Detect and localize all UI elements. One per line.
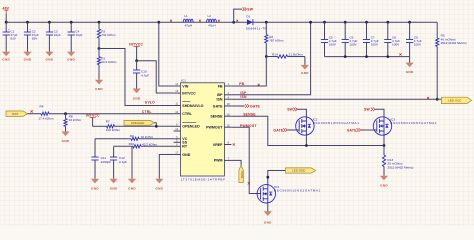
transistor IC3 — [373, 117, 391, 135]
port GATE pin — [231, 105, 244, 107]
svg-text:ISN: ISN — [217, 97, 223, 101]
svg-text:D1: D1 — [246, 15, 250, 19]
svg-text:GND: GND — [67, 57, 75, 61]
svg-text:L2: L2 — [208, 14, 212, 18]
pin 16 SENSE — [224, 115, 231, 117]
svg-text:GND: GND — [182, 153, 190, 157]
ground R8 — [61, 131, 69, 136]
capacitor C12 — [113, 147, 115, 157]
port SW top — [243, 7, 247, 11]
ground R1 — [95, 80, 103, 85]
svg-text:UVLO: UVLO — [145, 101, 155, 105]
ground C10 — [133, 89, 141, 94]
node FB — [265, 55, 268, 58]
wire UVLO to pin — [99, 49, 174, 106]
svg-text:SHDN/UVLO: SHDN/UVLO — [182, 104, 203, 108]
capacitor C4 — [70, 21, 73, 24]
wire IC3 source — [383, 136, 385, 145]
svg-text:16: 16 — [227, 112, 230, 116]
svg-text:GND: GND — [91, 187, 99, 191]
ground R14 — [304, 57, 306, 65]
svg-text:GND: GND — [155, 187, 163, 191]
svg-text:10: 10 — [175, 110, 178, 114]
ground C4 — [67, 52, 75, 57]
wire INTVCC to pin — [137, 61, 174, 93]
diode D1 — [247, 19, 253, 25]
ground IC4 — [264, 211, 272, 216]
svg-text:RT: RT — [182, 145, 188, 149]
svg-text:18: 18 — [227, 102, 230, 106]
svg-text:GATE: GATE — [213, 104, 223, 108]
svg-text:FB: FB — [218, 84, 223, 88]
svg-text:10µF: 10µF — [54, 33, 61, 37]
overline SHDN — [182, 101, 190, 103]
svg-text:PWM: PWM — [214, 159, 223, 163]
node CTRL divider — [64, 112, 67, 115]
inductor L1 — [183, 19, 193, 22]
overline OPENLED — [182, 121, 196, 123]
wire OPENLED port stub — [155, 123, 157, 127]
wire SW to port — [234, 9, 243, 22]
wire cap ground bus — [325, 56, 410, 58]
pin 2 ISP — [224, 94, 231, 96]
svg-text:2512 (6432 Metric): 2512 (6432 Metric) — [441, 41, 467, 45]
svg-text:787 kOhm: 787 kOhm — [269, 39, 284, 43]
svg-text:GND: GND — [2, 57, 10, 61]
pin 10 CTRL — [174, 113, 181, 115]
svg-text:GND: GND — [264, 220, 272, 224]
resistor R2 — [265, 21, 268, 24]
wire output rail — [253, 21, 437, 23]
svg-text:21.5kOhm: 21.5kOhm — [289, 52, 304, 56]
svg-text:OPENLED: OPENLED — [182, 125, 200, 129]
svg-text:SENSE: SENSE — [243, 112, 256, 116]
svg-text:2512 (6432 Metric): 2512 (6432 Metric) — [388, 166, 414, 170]
port OPENLED — [124, 120, 155, 125]
op-amp U1 LT3761 controller IC1 — [181, 83, 225, 176]
pin 15 PWMOUT — [224, 126, 231, 128]
resistor R14 — [266, 56, 277, 58]
svg-text:LED GND: LED GND — [292, 169, 306, 173]
ground C12 — [110, 179, 118, 184]
capacitor C9 — [408, 21, 411, 24]
svg-text:VREF: VREF — [213, 143, 223, 147]
svg-text:GND: GND — [95, 87, 103, 91]
svg-text:GND: GND — [133, 97, 141, 101]
svg-text:100V: 100V — [414, 42, 422, 46]
svg-text:13: 13 — [175, 89, 178, 93]
svg-text:SW: SW — [247, 8, 253, 12]
svg-text:R4: R4 — [40, 105, 44, 109]
svg-text:SENSE: SENSE — [210, 114, 223, 118]
ground C3 — [45, 52, 53, 57]
svg-text:17: 17 — [175, 151, 178, 155]
capacitor C7 — [365, 21, 368, 24]
ground C1 — [2, 52, 10, 57]
svg-text:LT3761EMSE-2#TRPBF: LT3761EMSE-2#TRPBF — [181, 177, 226, 181]
svg-text:12: 12 — [175, 127, 178, 131]
no-connect VREF — [233, 143, 235, 145]
resistor R4 — [28, 113, 42, 115]
svg-text:23.2 kOhm: 23.2 kOhm — [101, 60, 117, 64]
svg-text:GATE: GATE — [250, 105, 261, 109]
ground RT — [128, 179, 136, 184]
ground cap bus — [409, 57, 411, 63]
pin 17 GND — [174, 154, 181, 156]
resistor R5 — [436, 22, 438, 38]
svg-text:100V: 100V — [349, 42, 357, 46]
wire ISP — [231, 22, 310, 95]
svg-text:100V: 100V — [371, 42, 379, 46]
pin 14 VIN — [174, 85, 181, 87]
node UVLO divider — [98, 47, 101, 50]
wire IC4 source — [267, 204, 269, 211]
pin 1 FB — [224, 85, 231, 87]
capacitor C10 — [136, 61, 138, 70]
svg-text:IADJ: IADJ — [12, 112, 19, 116]
svg-text:10 kOhm: 10 kOhm — [69, 118, 82, 122]
svg-text:ISP: ISP — [217, 93, 223, 97]
svg-text:11: 11 — [175, 102, 178, 106]
resistor R1 — [98, 49, 100, 57]
svg-text:R14: R14 — [272, 52, 278, 56]
wire ISN — [231, 98, 437, 100]
wire SW to IC2 drain — [297, 109, 307, 115]
svg-text:48V: 48V — [3, 6, 10, 10]
svg-text:R9: R9 — [130, 134, 134, 138]
wire GATE IC3 — [361, 129, 377, 131]
resistor R10 — [114, 145, 133, 147]
ground C11 — [91, 179, 99, 184]
svg-text:PWM: PWM — [240, 171, 244, 179]
wire FB — [231, 57, 266, 87]
svg-text:14: 14 — [175, 82, 178, 86]
ground IC1 — [155, 179, 163, 184]
svg-text:GATE: GATE — [273, 128, 284, 132]
ground R13 — [380, 176, 388, 181]
svg-text:GND: GND — [128, 187, 136, 191]
wire SW to IC3 drain — [375, 109, 384, 115]
wire RT ground — [131, 146, 133, 178]
svg-text:63V: 63V — [10, 37, 16, 41]
resistor R9 — [95, 138, 131, 140]
svg-text:100V: 100V — [392, 42, 400, 46]
svg-text:15: 15 — [227, 123, 230, 127]
resistor R7 — [93, 125, 107, 127]
svg-text:GND: GND — [46, 57, 54, 61]
svg-text:GND: GND — [406, 70, 414, 74]
svg-text:BSC060N10NS3GATMA1: BSC060N10NS3GATMA1 — [313, 121, 360, 125]
resistor R8 — [65, 114, 67, 119]
port LED GND — [286, 168, 316, 173]
pin 11 SHDN/UVLO — [174, 105, 181, 107]
svg-text:100 kOhm: 100 kOhm — [106, 128, 121, 132]
svg-text:GATE: GATE — [347, 128, 358, 132]
capacitor C1 — [5, 22, 7, 32]
wire to LED VCC port — [437, 98, 441, 100]
pin 13 INTVCC — [174, 92, 181, 94]
wire PWMOUT — [231, 127, 260, 193]
pin 4 ISN — [224, 98, 231, 100]
svg-text:BSC060N10NS3GATMA1: BSC060N10NS3GATMA1 — [390, 121, 437, 125]
svg-text:732 kOhm: 732 kOhm — [101, 33, 116, 37]
svg-text:L1: L1 — [184, 14, 188, 18]
wire SENSE — [231, 116, 384, 145]
pin 7 PWM — [224, 159, 231, 161]
svg-text:63V: 63V — [32, 37, 38, 41]
svg-text:OPENLED: OPENLED — [131, 121, 144, 125]
port LED VCC — [441, 97, 471, 103]
svg-text:GND: GND — [380, 184, 388, 188]
resistor R3 — [98, 21, 101, 24]
node INTVCC — [135, 59, 138, 62]
svg-text:VIN: VIN — [182, 84, 188, 88]
svg-text:FB: FB — [239, 82, 244, 86]
svg-text:10µF: 10µF — [75, 33, 82, 37]
svg-text:10 kOhm: 10 kOhm — [141, 135, 154, 139]
svg-text:ISN: ISN — [240, 95, 247, 99]
wire marker specks — [170, 20, 172, 22]
wire IC ground — [159, 155, 173, 179]
resistor R13 — [383, 146, 385, 156]
svg-text:INTVCC: INTVCC — [182, 91, 196, 95]
svg-text:CTRL: CTRL — [182, 112, 192, 116]
svg-text:0.1µF: 0.1µF — [119, 160, 127, 164]
pin 5 SS — [174, 141, 181, 143]
wire GATE IC2 — [288, 129, 300, 131]
svg-text:GND: GND — [62, 139, 70, 143]
capacitor C6 — [344, 21, 347, 24]
svg-text:R10: R10 — [129, 142, 135, 146]
inductor L2 — [207, 19, 217, 22]
svg-text:PWMOUT: PWMOUT — [240, 124, 257, 128]
wire 48V to rail — [5, 14, 7, 23]
wire IC2 source — [305, 136, 307, 145]
transistor IC4 — [257, 185, 275, 203]
pin 12 NC — [174, 130, 181, 132]
svg-text:LED VCC: LED VCC — [448, 99, 462, 103]
svg-text:PWMOUT: PWMOUT — [206, 125, 223, 129]
ground C2 — [23, 52, 31, 57]
svg-text:CTRL: CTRL — [142, 110, 152, 114]
svg-text:R7: R7 — [106, 120, 110, 124]
pin 6 RT — [174, 145, 181, 147]
svg-text:SW: SW — [287, 108, 293, 112]
transistor IC2 — [296, 117, 314, 135]
port PWM — [239, 166, 243, 183]
svg-text:2200pF: 2200pF — [101, 160, 112, 164]
svg-text:INTVCC: INTVCC — [129, 42, 143, 46]
pin 8 VREF — [224, 144, 231, 146]
capacitor C3 — [48, 21, 51, 24]
svg-text:100V: 100V — [329, 42, 337, 46]
capacitor C8 — [386, 21, 389, 24]
svg-text:43.2 kOhm: 43.2 kOhm — [142, 143, 158, 147]
svg-text:GND: GND — [301, 71, 309, 75]
capacitor C5 — [323, 21, 326, 24]
svg-text:GND: GND — [24, 57, 32, 61]
svg-text:SW: SW — [364, 108, 370, 112]
svg-text:47µH: 47µH — [208, 23, 215, 27]
svg-text:17.4 kOhm: 17.4 kOhm — [38, 117, 54, 121]
svg-text:4.7µF: 4.7µF — [141, 73, 149, 77]
port IADJ — [6, 111, 28, 116]
pin 9 OPENLED — [174, 125, 181, 127]
node SW tap — [232, 21, 235, 24]
pin 3 VC — [174, 138, 181, 140]
svg-text:SK8641L-TP: SK8641L-TP — [246, 27, 267, 31]
wire input rail — [6, 21, 247, 23]
svg-text:47µH: 47µH — [185, 23, 192, 27]
wire LED GND — [268, 171, 286, 184]
wire PWM — [231, 160, 241, 165]
svg-text:GND: GND — [110, 187, 118, 191]
capacitor C11 — [94, 139, 96, 157]
pin 18 GATE — [224, 105, 231, 107]
svg-text:IC1: IC1 — [181, 79, 186, 83]
wire VIN drop — [157, 21, 160, 24]
svg-text:BSC060N10NS3GATMA1: BSC060N10NS3GATMA1 — [274, 189, 321, 193]
capacitor C2 — [26, 21, 29, 24]
